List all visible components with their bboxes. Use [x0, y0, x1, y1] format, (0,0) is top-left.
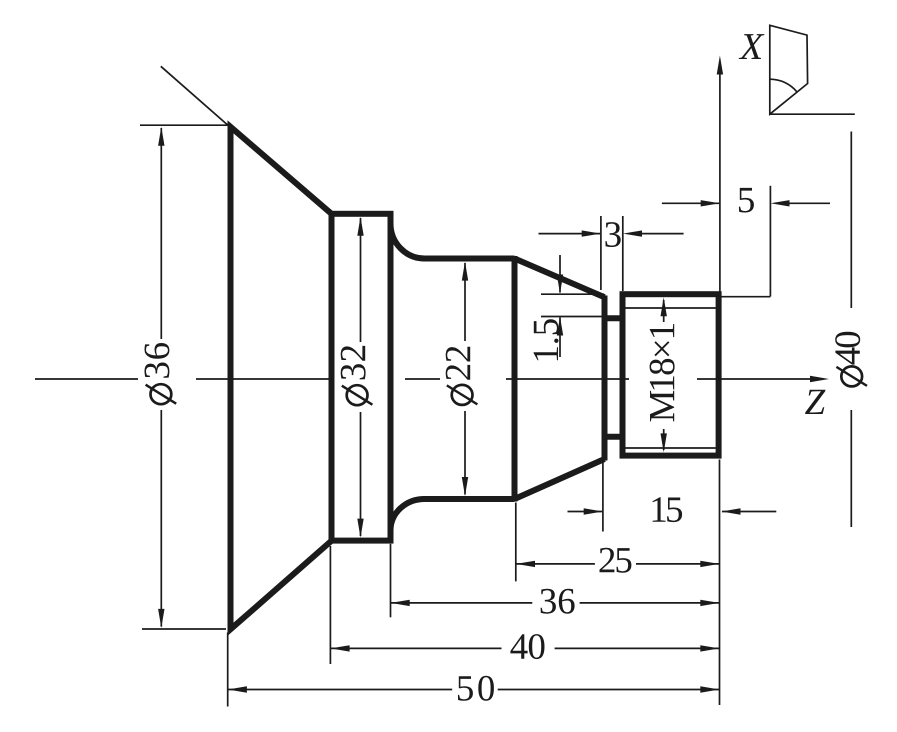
wire: groove bottom top side — [602, 315, 626, 321]
label 25 (len 31.9 x 24.9, k=0.890) — [600, 548, 632, 573]
label phi22 (len 59.0 x 31.9, k=0.988) — [446, 347, 478, 405]
node: Z axis arrowhead — [810, 376, 829, 382]
label phi40 (len 55.4 x 32.0, k=0.888) — [835, 332, 867, 387]
node: 40 dimension — [329, 546, 331, 664]
node: tool nose arc — [770, 79, 797, 92]
wire: right end extension line — [719, 460, 721, 706]
label X (len 25.7 x 24.9, k=1.000) — [739, 34, 765, 59]
node: tool symbol polygon — [770, 25, 808, 114]
wire: groove left face — [602, 296, 608, 461]
label phi36 (len 62.0 x 31.9, k=1.037) — [145, 343, 177, 404]
wire: groove bottom bottom side — [602, 434, 626, 440]
node: thread M18 body — [623, 294, 719, 455]
node: 5 dimension — [769, 186, 771, 297]
label M18x1 (len 97.4 x 25.0, k=0.905) — [650, 324, 675, 421]
label 40 (len 34.1 x 25.0, k=0.958) — [510, 634, 544, 659]
node: 25 dimension — [515, 503, 517, 582]
wire: phi22 bottom surface — [423, 496, 515, 502]
wire: phi22 top surface — [423, 256, 515, 262]
node: phi40 dimension line — [850, 132, 852, 528]
wire: tool bottom line — [770, 113, 855, 115]
node: phi32 cylinder body — [332, 214, 391, 541]
node: 50 dimension — [227, 633, 229, 707]
node: phi32 dimension line — [360, 218, 362, 536]
node: 1.5 dimension — [559, 255, 561, 357]
wire: thread minor diameter bottom — [626, 447, 716, 449]
node: phi22 dimension line — [464, 263, 466, 495]
node: phi36 dimension line — [160, 128, 162, 627]
wire: top fillet arc between phi32 step and phi22 surface — [391, 224, 425, 259]
node: 3 dimension — [601, 216, 623, 291]
wire: part outline left face and cone slopes — [231, 127, 332, 630]
wire: phi22 to taper transition edge — [512, 256, 518, 502]
label 3 (len 15.3 x 24.9, k=1.000) — [605, 222, 620, 247]
wire: phi36 bottom extension line — [142, 628, 226, 630]
label 5 (len 14.9 x 24.6, k=1.000) — [739, 188, 754, 213]
node: 15 dimension — [602, 461, 604, 532]
label 50 (len 36.0 x 25.0, k=1.138) — [458, 676, 494, 701]
node: X axis arrowhead — [717, 56, 723, 75]
wire: cone slope thin extension — [161, 66, 230, 127]
label Z (len 20.4 x 24.2, k=1.000) — [805, 390, 825, 414]
node: X axis line — [719, 74, 721, 292]
wire: taper bottom edge — [515, 459, 605, 499]
node: M18x1 dimension line — [663, 300, 665, 450]
label phi32 (len 60.0 x 31.9, k=1.012) — [341, 346, 373, 405]
wire: taper top edge — [515, 259, 605, 298]
node: 36 dimension — [390, 544, 392, 618]
label 15 (len 29.5 x 24.8, k=0.849) — [653, 497, 683, 522]
wire: thread minor diameter top — [626, 307, 716, 309]
label 36 (len 34.0 x 24.9, k=0.993) — [541, 589, 575, 614]
label 1.5 (len 41.0 x 24.9, k=0.980) — [534, 319, 559, 360]
wire: bottom fillet arc — [391, 499, 425, 531]
wire: phi36 top extension line — [140, 124, 229, 126]
wire: centerline segments — [35, 378, 811, 380]
